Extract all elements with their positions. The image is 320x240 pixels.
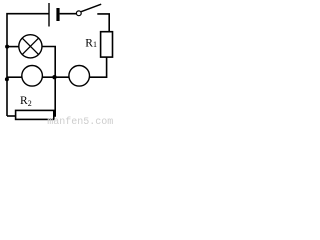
wire lamp right lead, middle vertical, to R2 right lead (42, 47, 55, 117)
wire bottom-left lead to R2 (7, 115, 16, 117)
lamp L cross diagonal 1 (22, 38, 38, 54)
junction node (middle vertical / meter row) (52, 75, 56, 79)
wire switch contact to top-right corner down to R1 (97, 14, 109, 32)
switch S pivot circle (76, 11, 81, 16)
battery B1 long plate (positive) (48, 3, 50, 27)
wire left meter to left rail (7, 76, 22, 78)
wire between meters row 2 (42, 76, 69, 78)
wire R1 bottom lead down to row 2 (90, 57, 107, 77)
junction node (left rail / lamp row) (5, 45, 9, 49)
junction node (left rail / meter row) (5, 77, 9, 81)
svg-text:R: R (20, 95, 28, 107)
wire battery to switch (60, 13, 77, 15)
lamp L circle (19, 35, 42, 58)
meter (right, row 2) (69, 66, 90, 87)
resistor R1 body (101, 32, 113, 57)
lamp L left lead (7, 46, 19, 48)
svg-text:2: 2 (28, 99, 32, 108)
lamp L cross diagonal 2 (22, 38, 38, 54)
wire left vertical and top wire to battery (7, 14, 49, 116)
meter (left, row 2) (22, 66, 43, 87)
resistor R2 body (16, 110, 54, 119)
switch S lever (open) (81, 4, 101, 12)
svg-text:1: 1 (93, 40, 97, 49)
svg-text:manfen5.com: manfen5.com (47, 116, 113, 125)
battery B1 short thick plate (negative) (56, 8, 59, 21)
